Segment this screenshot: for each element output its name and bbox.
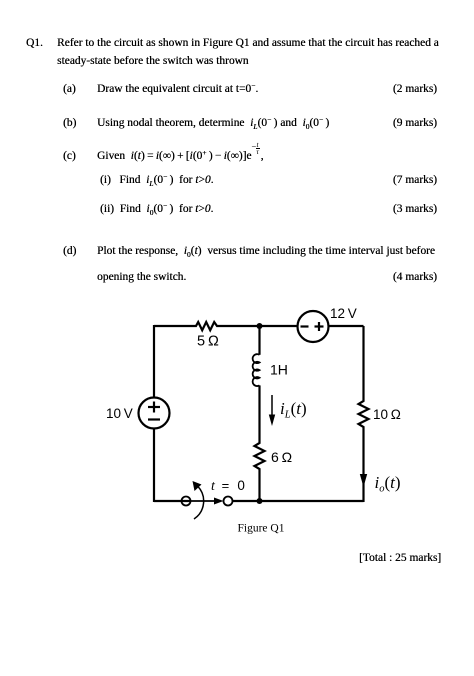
label 6ohm — [271, 449, 292, 465]
svg-text:12 V: 12 V — [330, 306, 357, 321]
wire middle upper — [258, 326, 260, 355]
wire middle mid — [258, 385, 260, 442]
figure caption — [238, 523, 285, 535]
wire top-right segment — [329, 325, 364, 327]
switch S1 — [182, 481, 233, 519]
svg-text:t=0: t=0 — [211, 478, 245, 494]
wire right lower with current arrow io(t) — [360, 428, 367, 502]
label t = 0 — [211, 478, 245, 494]
current arrow iL(t) — [269, 395, 275, 426]
voltage source V1 10V — [139, 398, 170, 429]
svg-text:10 Ω: 10 Ω — [373, 407, 401, 422]
node B junction dot — [257, 498, 263, 504]
voltage source V2 12V — [298, 311, 329, 342]
wire left lower — [153, 429, 155, 503]
resistor R2 6ohm — [255, 442, 265, 470]
node A junction dot — [257, 323, 263, 329]
label 10ohm — [373, 407, 401, 422]
svg-text:1H: 1H — [270, 362, 288, 378]
wire top-left segment — [154, 325, 194, 327]
wire left upper — [153, 325, 155, 398]
label 5ohm — [197, 334, 219, 350]
label 1H — [270, 362, 288, 378]
resistor R 5ohm — [194, 322, 219, 330]
svg-text:iL(t): iL(t) — [280, 399, 307, 421]
label iL(t) — [280, 399, 307, 421]
wire bottom-right segment — [233, 500, 364, 502]
label io(t) — [375, 473, 401, 495]
svg-text:6 Ω: 6 Ω — [271, 449, 292, 465]
question text block — [26, 37, 43, 49]
svg-text:Figure Q1: Figure Q1 — [238, 523, 285, 535]
wire bottom-left segment — [154, 500, 191, 502]
wire top-middle segment — [219, 325, 298, 327]
wire middle lower — [258, 470, 260, 502]
svg-text:5 Ω: 5 Ω — [197, 334, 219, 350]
inductor L1 1H — [253, 354, 260, 386]
wire right upper — [362, 326, 364, 400]
label 12V — [330, 306, 357, 321]
svg-text:10 V: 10 V — [106, 406, 133, 421]
resistor R3 10ohm — [359, 400, 369, 428]
label 10V — [106, 406, 133, 421]
svg-text:io(t): io(t) — [375, 473, 401, 495]
